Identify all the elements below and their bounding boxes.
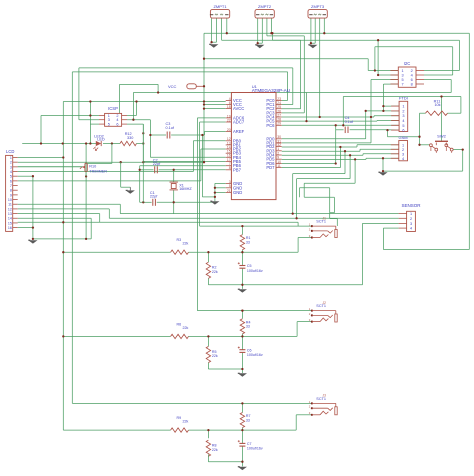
svg-text:SCT1: SCT1 [316,304,326,308]
svg-text:SENSOR: SENSOR [401,203,421,208]
svg-text:AREF: AREF [233,129,245,134]
svg-text:2: 2 [402,148,404,152]
svg-text:14: 14 [8,217,12,221]
svg-text:R5: R5 [212,350,217,354]
svg-text:1: 1 [402,69,404,73]
svg-text:4: 4 [402,119,404,123]
svg-text:33: 33 [246,240,250,244]
svg-text:ATMEGA328P-AU: ATMEGA328P-AU [252,88,291,93]
svg-text:10k: 10k [434,103,440,107]
svg-text:1: 1 [410,212,412,216]
svg-text:6: 6 [10,179,12,183]
svg-text:4: 4 [411,73,413,77]
svg-text:2: 2 [10,161,12,165]
svg-text:4: 4 [116,118,118,122]
svg-text:R10: R10 [89,164,96,168]
svg-text:4: 4 [410,227,412,231]
svg-text:ZMPT1: ZMPT1 [213,4,227,9]
svg-text:22k: 22k [212,448,218,452]
svg-text:R2: R2 [212,266,217,270]
svg-text:3: 3 [10,165,12,169]
svg-text:GSM: GSM [399,135,408,140]
svg-text:PD7: PD7 [266,165,275,170]
svg-text:C7: C7 [247,442,252,446]
svg-text:ICSP: ICSP [108,106,118,111]
svg-text:22k: 22k [212,270,218,274]
svg-text:PB7: PB7 [233,167,242,172]
svg-text:100uf/16v: 100uf/16v [247,447,263,451]
svg-text:R3: R3 [177,238,182,242]
svg-text:TRIMMER: TRIMMER [89,170,107,174]
svg-text:3: 3 [402,152,404,156]
svg-text:2: 2 [411,69,413,73]
svg-text:29: 29 [277,122,281,126]
svg-text:ADC7: ADC7 [233,120,245,125]
svg-text:SW2: SW2 [437,134,446,139]
svg-text:2: 2 [410,217,412,221]
svg-text:R9: R9 [177,416,182,420]
svg-text:2: 2 [402,109,404,113]
svg-text:330: 330 [127,136,133,140]
svg-text:C6: C6 [247,348,252,352]
svg-text:ZMPT2: ZMPT2 [258,4,272,9]
svg-text:C5: C5 [247,264,252,268]
svg-text:15: 15 [8,221,12,225]
svg-text:22k: 22k [183,420,189,424]
svg-text:10: 10 [8,198,12,202]
svg-text:33: 33 [246,325,250,329]
svg-text:1: 1 [10,156,12,160]
svg-text:33: 33 [246,418,250,422]
svg-text:3: 3 [229,180,231,184]
svg-text:GND: GND [233,190,242,195]
svg-text:100uf/16v: 100uf/16v [247,353,263,357]
svg-text:8: 8 [229,166,231,170]
svg-text:3: 3 [402,73,404,77]
svg-text:22pf: 22pf [153,162,161,166]
svg-text:22k: 22k [212,354,218,358]
svg-text:1: 1 [402,105,404,109]
svg-text:6: 6 [411,78,413,82]
svg-text:SCT1: SCT1 [316,220,326,224]
svg-text:3: 3 [402,114,404,118]
svg-text:100uf/16v: 100uf/16v [247,269,263,273]
svg-text:7: 7 [10,184,12,188]
svg-text:18: 18 [227,105,231,109]
svg-text:8: 8 [10,189,12,193]
svg-text:5: 5 [402,124,404,128]
svg-text:5: 5 [10,175,12,179]
svg-text:FTDI: FTDI [399,96,408,101]
svg-text:16MHZ: 16MHZ [179,187,192,191]
svg-text:5: 5 [229,184,231,188]
svg-text:R6: R6 [177,322,182,326]
svg-text:ZMPT3: ZMPT3 [311,4,325,9]
svg-text:PC6: PC6 [266,123,275,128]
svg-text:6: 6 [402,129,404,133]
svg-text:I2C: I2C [404,61,411,66]
svg-text:LCD: LCD [6,149,14,154]
svg-text:9: 9 [10,193,12,197]
svg-text:5: 5 [108,123,110,127]
svg-text:8: 8 [411,82,413,86]
svg-text:22k: 22k [183,326,189,330]
svg-text:22: 22 [227,118,231,122]
svg-text:SCT1: SCT1 [316,397,326,401]
svg-text:0.1uf: 0.1uf [166,126,175,130]
svg-text:4: 4 [402,157,404,161]
svg-text:3: 3 [108,118,110,122]
svg-text:4: 4 [10,170,12,174]
svg-text:AVCC: AVCC [233,106,244,111]
svg-text:21: 21 [227,189,231,193]
svg-text:22k: 22k [183,242,189,246]
svg-text:1: 1 [402,143,404,147]
svg-text:20: 20 [227,128,231,132]
svg-text:R8: R8 [212,444,217,448]
svg-text:VCC: VCC [168,84,177,89]
svg-text:16: 16 [8,226,12,230]
svg-text:0.1uf: 0.1uf [345,120,354,124]
svg-text:7: 7 [402,82,404,86]
svg-text:6: 6 [116,123,118,127]
svg-text:12: 12 [8,207,12,211]
svg-text:5: 5 [402,78,404,82]
svg-text:22pf: 22pf [150,195,158,199]
svg-text:13: 13 [8,212,12,216]
svg-text:3: 3 [410,222,412,226]
svg-text:LED: LED [97,137,105,141]
svg-text:11: 11 [8,203,12,207]
svg-text:11: 11 [277,164,281,168]
